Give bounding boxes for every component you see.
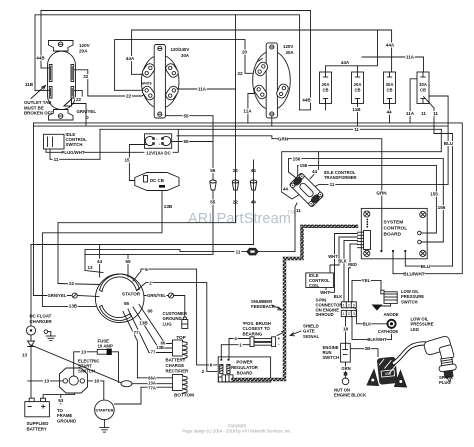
wire R2 left mid 22 [115, 89, 143, 91]
dc float charger plug [26, 326, 35, 335]
label 22 [232, 200, 239, 205]
svg-text:YEL: YEL [362, 278, 371, 283]
wire R3 BL 11A wire [248, 94, 254, 123]
svg-text:22: 22 [76, 97, 82, 102]
wire R1 left hot stub [41, 67, 49, 69]
wire fuse to 13A [112, 352, 119, 383]
svg-text:11: 11 [421, 111, 426, 116]
text LOW OIL PRESSURE LED [411, 317, 434, 332]
svg-text:SWITCH: SWITCH [66, 142, 83, 147]
svg-text:6: 6 [145, 267, 148, 272]
low oil LED [387, 320, 395, 328]
svg-text:STATOR: STATOR [122, 292, 141, 297]
label 11 [353, 127, 360, 132]
wire blk anode wire [354, 307, 388, 324]
text SUPPLIED BATTERY [27, 421, 49, 431]
wire grn run [177, 136, 382, 251]
svg-text:44B: 44B [302, 98, 311, 103]
svg-text:22: 22 [83, 74, 89, 79]
svg-text:CB: CB [322, 88, 328, 93]
copyright note [182, 423, 291, 434]
wire 11 riser from idle sw [99, 129, 101, 159]
svg-text:22: 22 [237, 71, 243, 76]
label 16 [93, 378, 100, 383]
text GRN/YEL D [77, 109, 97, 114]
wire 11/55 route [85, 254, 213, 256]
text SPARK PLUG [439, 375, 453, 385]
svg-text:BLK: BLK [338, 259, 347, 264]
label 11 [420, 111, 427, 116]
svg-text:11B: 11B [25, 82, 34, 87]
text SHIELD GATE SIGNAL [303, 324, 320, 339]
wire left long v [33, 123, 35, 296]
svg-text:+: + [277, 336, 280, 341]
wire wht v [326, 234, 335, 293]
label 11A [197, 87, 207, 92]
label 55 [183, 139, 190, 144]
label 13 [21, 353, 28, 358]
text TO FRAME GROUND [57, 408, 76, 423]
label 13B [68, 303, 78, 308]
label BLK/WHT [367, 337, 387, 342]
wire CB2 bottom 11B [357, 99, 359, 127]
svg-text:PLUG/WHT: PLUG/WHT [62, 150, 85, 155]
label 11 [329, 182, 336, 187]
wire lop gnd [377, 303, 391, 306]
label 11 [432, 111, 439, 116]
label 22 [232, 168, 239, 173]
wire R3 strap bottom wire [271, 116, 273, 126]
svg-text:120/240V: 120/240V [171, 47, 190, 52]
spark plug [423, 335, 458, 383]
svg-text:2B: 2B [365, 346, 370, 351]
svg-text:44B: 44B [36, 56, 45, 61]
receptacle R1 duplex 120V 20A [48, 41, 76, 121]
text OUTLET TAB MUST BE BROKEN OFF [24, 100, 53, 115]
svg-text:44A: 44A [126, 56, 135, 61]
wire R2 TL stub 44A [132, 73, 143, 75]
svg-text:55: 55 [210, 168, 216, 173]
label 55 [125, 259, 132, 264]
label 11A [243, 109, 253, 114]
text LOW OIL PRESSURE SWITCH [401, 289, 424, 304]
fuse 10 amp [97, 349, 111, 355]
wire blk2 v [343, 241, 345, 303]
text IDLE CONTROL TRANSFORMER [324, 170, 357, 180]
circuit breaker CB3 30A [384, 72, 396, 104]
label 13 [80, 349, 87, 354]
wire 15 wire [129, 145, 146, 181]
svg-text:156: 156 [293, 156, 301, 161]
brush assembly [250, 337, 276, 347]
callout arrow outlet tab [31, 86, 46, 99]
svg-text:30A: 30A [419, 82, 427, 87]
text 120/240V 30A [171, 47, 190, 52]
wire 6 wire [133, 269, 217, 365]
wire 44 left diag [282, 192, 301, 199]
text 30A r3 [286, 50, 295, 55]
svg-text:CHARGE: CHARGE [166, 363, 185, 368]
label 13 [87, 265, 94, 270]
svg-text:GROUND: GROUND [57, 418, 76, 423]
wire 22 riser [235, 15, 237, 223]
svg-text:CB: CB [386, 88, 392, 93]
wire blk/wht wire [352, 317, 392, 340]
wire R2 left 22 into BL [142, 95, 144, 97]
svg-text:44A: 44A [341, 60, 350, 65]
diode D1 [28, 341, 35, 347]
label 13B [163, 204, 173, 209]
label 20 [241, 50, 248, 55]
wire 77 bcr [128, 309, 172, 353]
svg-text:13: 13 [87, 265, 93, 270]
inline connector 55 [210, 180, 216, 190]
label BLU/WHT [403, 271, 424, 276]
wire 2B wire [350, 349, 378, 357]
wire scb right t2 [421, 241, 443, 243]
inline conn 13A [121, 381, 132, 387]
label 15 [124, 158, 131, 163]
battery charge rectifier top connector [173, 340, 188, 359]
label 156 [292, 156, 302, 161]
wire 22 route [58, 222, 236, 224]
wire 156 diag [289, 172, 299, 180]
svg-text:53: 53 [58, 398, 64, 403]
label + [277, 336, 280, 341]
inline connector 22 [232, 180, 238, 190]
wire 18 wire [345, 317, 347, 344]
wire 66A fan [123, 312, 137, 378]
svg-text:44A: 44A [386, 43, 395, 48]
3-pin connector lower [341, 311, 356, 317]
svg-text:GRN/YEL: GRN/YEL [47, 293, 66, 298]
svg-text:GRN: GRN [376, 191, 387, 196]
wire yel wire up [351, 280, 353, 301]
label - [278, 342, 280, 347]
label 44 [96, 259, 103, 264]
svg-text:IGN: IGN [385, 372, 392, 377]
svg-text:13B: 13B [69, 304, 78, 309]
svg-text:44: 44 [283, 187, 289, 192]
label STATOR [122, 292, 141, 297]
svg-text:20A: 20A [322, 82, 330, 87]
wire 16 wire [88, 381, 104, 401]
shield braid path [233, 226, 357, 379]
svg-text:30A: 30A [181, 53, 190, 58]
label PLUG/WHT [62, 150, 85, 155]
wire 11A to CB4 [362, 57, 424, 72]
wire 77A wire [141, 386, 173, 388]
svg-text:CB: CB [354, 88, 360, 93]
label 44 [386, 110, 393, 115]
label 77 [150, 350, 156, 355]
stator [95, 274, 144, 323]
svg-text:BATTERY: BATTERY [166, 358, 186, 363]
label 2B [364, 346, 370, 351]
label 13B [139, 320, 149, 325]
label 11B [24, 82, 34, 87]
label BLU [444, 141, 454, 146]
svg-text:11A: 11A [198, 87, 207, 92]
wire 44 top tap [310, 152, 319, 179]
wire CB4 lever drop 11 [433, 108, 435, 134]
svg-text:11: 11 [354, 127, 359, 132]
svg-text:TRANSFORMER: TRANSFORMER [324, 175, 357, 180]
svg-text:BOARD: BOARD [237, 371, 253, 376]
svg-text:6: 6 [210, 363, 213, 368]
wire CB3 bottom 44 [389, 99, 391, 123]
idle control coil [306, 273, 334, 288]
label 44A [340, 60, 350, 65]
wire 44 route [31, 244, 254, 246]
label 22 [125, 94, 132, 99]
charger ground symbol [46, 336, 55, 341]
text CB3 text [386, 82, 394, 93]
svg-text:155: 155 [300, 163, 308, 168]
watermark ARI PartStream [188, 210, 295, 227]
text IDLE CONTROL COIL [309, 273, 330, 288]
inline connector 44 [250, 180, 256, 190]
power regulator board [218, 357, 270, 382]
label GRN/YEL [147, 293, 167, 298]
wire top bus D 22 [115, 40, 253, 91]
wire CB2 top riser [357, 66, 359, 72]
wire gnd lug wire [174, 296, 185, 320]
battery [25, 398, 50, 417]
label 66A [148, 375, 157, 380]
svg-text:18: 18 [343, 327, 349, 332]
regulator bottom connector [219, 375, 234, 382]
svg-text:44: 44 [386, 110, 392, 115]
svg-text:RED: RED [348, 262, 357, 267]
wire R2 BR 11A wire [178, 88, 236, 90]
label 13A [148, 381, 157, 386]
wire route y249 [85, 249, 180, 251]
svg-text:15: 15 [124, 158, 130, 163]
svg-text:22: 22 [126, 94, 132, 99]
terminal circle grn/yel [72, 293, 77, 298]
wire blk sig [339, 236, 358, 238]
label 44 [250, 168, 257, 173]
wire 55 wire right [172, 141, 213, 143]
text 120V 20A [79, 43, 91, 54]
wire yel wire [352, 280, 381, 291]
3-pin connector upper [341, 302, 356, 308]
wire 44 riser [253, 160, 255, 245]
battery charge rectifier bottom connector [173, 375, 188, 394]
wire 44 stator [99, 245, 101, 278]
label 44B [36, 56, 46, 61]
svg-text:STARTER: STARTER [95, 407, 113, 412]
svg-text:CONTROL: CONTROL [384, 226, 408, 232]
wire R1 right lower stub [75, 90, 83, 96]
label 6 [209, 362, 213, 367]
svg-text:13B: 13B [139, 321, 148, 326]
svg-text:11B: 11B [352, 107, 361, 112]
wire 22 stub [58, 284, 100, 285]
svg-text:11: 11 [54, 157, 59, 162]
svg-text:POWER: POWER [236, 360, 253, 365]
wire 66 bcr [139, 305, 172, 344]
wire wht sig [335, 233, 358, 235]
svg-text:12V/10A DC: 12V/10A DC [146, 150, 171, 155]
svg-text:CATHODE: CATHODE [378, 329, 399, 334]
ignition coil [367, 356, 407, 387]
wire 13B wire from DC CB [42, 191, 162, 307]
circuit breaker CB2 20A [352, 72, 364, 104]
text IDLE CONTROL SWITCH [66, 132, 88, 147]
label 22 [68, 281, 75, 286]
wire 156 run [289, 159, 444, 242]
svg-text:2: 2 [149, 280, 152, 285]
svg-text:LED: LED [411, 327, 419, 332]
label 155 [299, 163, 309, 168]
wire top bus A 44B [41, 11, 311, 110]
label 66 [160, 341, 166, 346]
circuit breaker CB4 30A [417, 72, 429, 104]
wire R1 left neutral stub [35, 89, 49, 91]
text ELECTRIC START SWITCH [78, 359, 100, 374]
receptacle R2 twistlock 120/240V 30A [141, 45, 180, 119]
svg-text:SUPPLIED: SUPPLIED [27, 421, 49, 426]
electric start switch [60, 368, 88, 393]
label 1 [239, 342, 243, 347]
svg-text:13: 13 [22, 353, 28, 358]
svg-text:BLK/WHT: BLK/WHT [367, 337, 387, 342]
label 77A [148, 385, 157, 390]
text CB4 text [419, 82, 427, 93]
wire 44 frame [282, 152, 442, 192]
svg-text:155: 155 [430, 192, 438, 197]
svg-text:BLK: BLK [334, 294, 343, 299]
label 44A [125, 56, 135, 61]
label CATHODE [378, 329, 399, 334]
label 44A [385, 43, 395, 48]
svg-text:SIGNAL: SIGNAL [303, 334, 320, 339]
label 11 [235, 249, 242, 254]
svg-text:BROKEN OFF: BROKEN OFF [24, 111, 53, 116]
svg-text:20: 20 [242, 50, 248, 55]
text ENGINE RUN SWITCH [323, 345, 340, 360]
svg-text:BLU: BLU [444, 141, 454, 146]
label WHITE [142, 82, 152, 86]
wire below charger [30, 335, 32, 400]
wire CB1 bottom 44B [325, 99, 327, 110]
svg-text:66A: 66A [148, 375, 156, 380]
text DC FLOAT CHARGER [30, 314, 53, 324]
label 155 [429, 192, 439, 197]
label 22 [237, 71, 244, 76]
label 13B [156, 345, 165, 350]
wire 53 drop [60, 395, 62, 404]
svg-text:16: 16 [94, 379, 100, 384]
wire 13A wire [132, 383, 173, 385]
engine run switch [341, 343, 351, 362]
svg-text:ARI PartStream: ARI PartStream [188, 211, 291, 227]
svg-text:SHROUD: SHROUD [316, 312, 334, 317]
svg-text:13: 13 [81, 350, 87, 355]
svg-text:11: 11 [236, 249, 241, 254]
label YEL [361, 278, 371, 283]
svg-text:ENGINE BLOCK: ENGINE BLOCK [334, 393, 366, 398]
wire 13 wire switch [28, 380, 63, 382]
svg-text:10 AMP: 10 AMP [98, 344, 113, 349]
terminal circle grn/yel right [168, 293, 173, 298]
svg-text:13B: 13B [156, 345, 164, 350]
inline connector 11 [247, 248, 258, 255]
snubber arrow [272, 305, 282, 310]
label 11 [296, 208, 303, 213]
wire R1 grn/yel wire [72, 104, 86, 127]
label IGN [385, 372, 392, 377]
wire 2 wire [137, 283, 217, 372]
svg-text:CHARGER: CHARGER [30, 319, 53, 324]
label 44 [250, 200, 257, 205]
svg-text:ANODE: ANODE [383, 312, 398, 317]
wire blu wire [405, 134, 452, 267]
svg-text:30A: 30A [386, 82, 394, 87]
label BOTTOM [174, 393, 194, 398]
svg-text:Copyright: Copyright [228, 423, 247, 428]
wire R3 arrow mark [258, 59, 263, 62]
label 55 [183, 113, 190, 118]
R1 ground tab arrow [64, 99, 72, 106]
wire bus grn/yel y122.9 [34, 123, 463, 274]
svg-text:CB: CB [420, 88, 426, 93]
wire R1 right 22 wire [75, 70, 142, 96]
svg-text:BLU: BLU [421, 264, 431, 269]
wire bus y126.1 [34, 125, 449, 127]
svg-text:1: 1 [239, 342, 242, 347]
svg-text:GRN: GRN [341, 366, 350, 371]
diag to connector [31, 345, 121, 383]
label BLK [338, 259, 347, 264]
wire 11a drop right [440, 129, 442, 151]
svg-text:LUG: LUG [163, 321, 173, 326]
label BLK [363, 321, 372, 326]
svg-text:GRN/YEL: GRN/YEL [77, 109, 97, 114]
label 11A [405, 111, 415, 116]
grn terminal square [344, 372, 348, 375]
svg-text:55: 55 [125, 259, 131, 264]
svg-text:30A: 30A [286, 50, 295, 55]
label 22 [75, 97, 82, 102]
wire 11 from xfmr [295, 203, 297, 252]
label 55 [124, 301, 130, 306]
svg-text:20A: 20A [79, 49, 88, 54]
svg-text:TOP: TOP [176, 335, 185, 340]
starter [95, 400, 115, 420]
svg-text:BOARD: BOARD [384, 231, 402, 237]
svg-text:PLUG: PLUG [439, 380, 451, 385]
wire grn inside board [381, 208, 383, 251]
wire 13 fuse wire [74, 352, 98, 376]
label 22 [82, 74, 89, 79]
12V/10A DC receptacle [145, 134, 172, 149]
text 3-PIN CONNECTOR ON ENGINE SHROUD [316, 298, 343, 318]
wire 55 stator [127, 255, 129, 277]
idle control transformer [289, 173, 324, 208]
label BLU [421, 264, 431, 269]
wire blk v [330, 237, 339, 273]
text FUSE 10 AMP [98, 338, 113, 348]
text NUT ON ENGINE BLOCK [334, 388, 366, 398]
svg-text:SWITCH: SWITCH [78, 369, 95, 374]
svg-text:77: 77 [151, 350, 156, 355]
nut terminal [342, 378, 349, 385]
label 6 [145, 267, 149, 272]
label 55 [209, 200, 216, 205]
